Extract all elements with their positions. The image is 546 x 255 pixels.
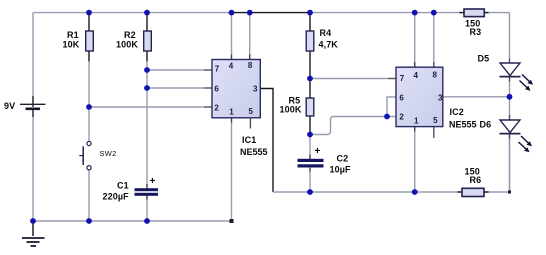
wire R4 bottom lead to node [309, 51, 311, 79]
wire IC1 pin2 from node [89, 106, 204, 108]
node C2 bottom on output line [307, 189, 313, 195]
svg-text:5: 5 [433, 116, 438, 125]
wire IC2 pin8 stub [433, 62, 435, 67]
resistor R3 [460, 9, 489, 17]
wire D6 cathode down lower [509, 139, 511, 193]
wire D5 cathode to D6 anode [509, 82, 511, 116]
wire top rail after R3 down to D5 anode [487, 13, 510, 59]
wire R1 bottom to trigger node [88, 51, 90, 62]
resistor R1 [86, 31, 94, 51]
svg-text:7: 7 [400, 74, 405, 83]
wire IC2 pin8 to top rail [433, 13, 435, 63]
node top rail IC1 pin8 [247, 10, 253, 16]
svg-text:2: 2 [399, 112, 404, 121]
svg-text:+: + [315, 146, 321, 157]
wire R4/R5 vertical [309, 79, 311, 99]
svg-text:R6: R6 [470, 175, 482, 185]
wire R5 bottom to C2 [309, 116, 311, 135]
wire C2 to output line lower [309, 172, 311, 193]
svg-text:IC1: IC1 [242, 135, 256, 145]
node R2 to pin7 [144, 67, 150, 73]
switch SW2 pushbutton [79, 141, 91, 169]
wire IC2 pin1 down to output line [414, 127, 416, 132]
wire top rail right (R4 to R3) [310, 12, 461, 14]
wire IC1 pin1 to bottom rail [231, 118, 233, 123]
node C1 bottom rail [144, 218, 150, 224]
svg-text:10µF: 10µF [330, 165, 351, 175]
svg-text:10K: 10K [63, 40, 80, 50]
svg-text:3: 3 [438, 93, 443, 102]
wire C1 top lead [146, 184, 148, 188]
node IC2 pin1 on output line [412, 189, 418, 195]
svg-text:4: 4 [414, 71, 419, 80]
node LED junction pin3 IC2 [507, 94, 513, 100]
resistor R2 [144, 31, 152, 51]
wire D5 anode lead [509, 59, 511, 64]
wire output line to D6/R6 [273, 191, 461, 193]
wire node to IC2 pin7 [310, 78, 388, 80]
op-amp U2: IC2 NE555 box [396, 67, 443, 126]
svg-text:D6: D6 [480, 120, 492, 130]
wire R6 to right corner up to D6 [485, 134, 510, 192]
wire threshold jog to IC2 pin2 [310, 117, 396, 135]
svg-text:NE555: NE555 [449, 120, 477, 130]
svg-text:2: 2 [214, 103, 219, 112]
svg-text:R4: R4 [320, 28, 332, 38]
node top rail IC1 pin4 [229, 10, 235, 16]
wire IC1 pin4 to top rail [231, 13, 233, 55]
wire top rail dark segment (IC1 pin8 to R4) [232, 12, 311, 14]
wire IC1 pin2 stub [204, 106, 212, 108]
LED D6 [500, 120, 533, 152]
wire IC2 pin6 tie to pin2 node [387, 97, 396, 117]
wire IC2 pin3 to LED junction [443, 96, 510, 98]
wire top rail left (V+ from battery to IC1 pins) [33, 13, 232, 104]
svg-text:220µF: 220µF [103, 192, 130, 202]
node terminal end bottom rail [230, 219, 234, 223]
wire IC1 pin3 output route down [260, 89, 273, 193]
node top rail R4 [307, 10, 313, 16]
svg-text:NE555: NE555 [240, 147, 268, 157]
wire left rail battery to ground rail [32, 110, 34, 222]
svg-text:R1: R1 [67, 30, 79, 40]
svg-text:6: 6 [214, 84, 219, 93]
node ground rail left [30, 218, 36, 224]
node top rail IC2 pin4 [412, 10, 418, 16]
wire R5/C2 node to C2 top [309, 135, 311, 156]
svg-text:100K: 100K [116, 40, 138, 50]
svg-text:8: 8 [433, 71, 438, 80]
wire IC1 pin5 stub [249, 118, 251, 129]
wire trigger node down to SW2 [88, 61, 90, 142]
node SW2 bottom rail [86, 218, 92, 224]
svg-text:4,7K: 4,7K [319, 40, 339, 50]
wire D5 cathode lead [509, 77, 511, 83]
wire IC2 pin7 stub [388, 78, 396, 80]
wire D6 anode lead [509, 115, 511, 120]
wire IC2 pin4 to top rail [414, 13, 416, 63]
node corner D6 to R6 [508, 191, 511, 194]
battery B1 9V [20, 96, 46, 117]
node IC2 pin6/pin2 tie [384, 114, 390, 120]
wire IC2 pin1 down lower [414, 132, 416, 193]
wire IC1 pin1 down lower [231, 123, 233, 222]
svg-text:SW2: SW2 [100, 149, 117, 158]
svg-text:1: 1 [229, 108, 234, 117]
wire C2 bottom to output line [309, 168, 311, 172]
LED D5 [500, 63, 534, 91]
svg-text:IC2: IC2 [450, 107, 464, 117]
op-amp U1: IC1 NE555 box [212, 60, 260, 118]
svg-text:4: 4 [229, 62, 234, 71]
wire IC1 pin7 stub [204, 69, 212, 71]
wire D6 cathode down [509, 134, 511, 140]
wire R2/C1 vertical [146, 61, 148, 185]
ground [22, 221, 45, 246]
svg-text:+: + [150, 176, 156, 187]
svg-text:3: 3 [253, 84, 258, 93]
svg-text:100K: 100K [280, 105, 302, 115]
wire IC1 pin4 stub [231, 55, 233, 60]
node top rail R2 [144, 10, 150, 16]
resistor R6 [458, 188, 489, 196]
wire bottom ground rail [33, 220, 232, 222]
node top rail IC2 pin8 [431, 10, 437, 16]
wire SW2 to bottom rail [88, 170, 90, 222]
wire IC1 pin6 from R2 node [147, 87, 204, 89]
wire IC1 pin8 to top rail [249, 13, 251, 55]
wire C1 to bottom rail lower [146, 200, 148, 222]
svg-text:C1: C1 [117, 181, 129, 191]
wire IC1 pin6 stub [204, 87, 212, 89]
wire R4 top lead [309, 13, 311, 31]
wire R1 branch top [88, 13, 90, 31]
node R4/R5/pin7 IC2 [307, 76, 313, 82]
capacitor C2 10uF electrolytic [298, 146, 324, 168]
wire C1 to bottom rail [146, 196, 148, 200]
node top rail R1 [86, 10, 92, 16]
capacitor C1 220uF electrolytic [135, 176, 159, 196]
wire IC2 pin4 stub [414, 62, 416, 67]
svg-text:R3: R3 [470, 27, 482, 37]
svg-text:8: 8 [248, 61, 253, 70]
node trigger R1/SW2/pin2 [86, 104, 92, 110]
svg-text:1: 1 [414, 117, 419, 126]
node R2 to pin6 [144, 85, 150, 91]
wire R2 bottom down to C1 [146, 51, 148, 62]
svg-text:9V: 9V [4, 101, 15, 111]
svg-text:6: 6 [399, 93, 404, 102]
wire IC2 pin5 stub [433, 127, 435, 138]
svg-text:D5: D5 [478, 54, 490, 64]
wire R2 branch top [146, 13, 148, 31]
wire IC1 pin7 from R2 node [147, 69, 204, 71]
svg-text:7: 7 [215, 64, 220, 73]
resistor R5 [306, 98, 314, 116]
resistor R4 [306, 31, 314, 51]
svg-text:5: 5 [249, 107, 254, 116]
svg-text:R2: R2 [124, 30, 136, 40]
wire IC1 pin8 stub [249, 55, 251, 60]
svg-text:C2: C2 [337, 154, 349, 164]
node R5/C2 threshold [307, 132, 313, 138]
wire C2 top lead [309, 155, 311, 160]
